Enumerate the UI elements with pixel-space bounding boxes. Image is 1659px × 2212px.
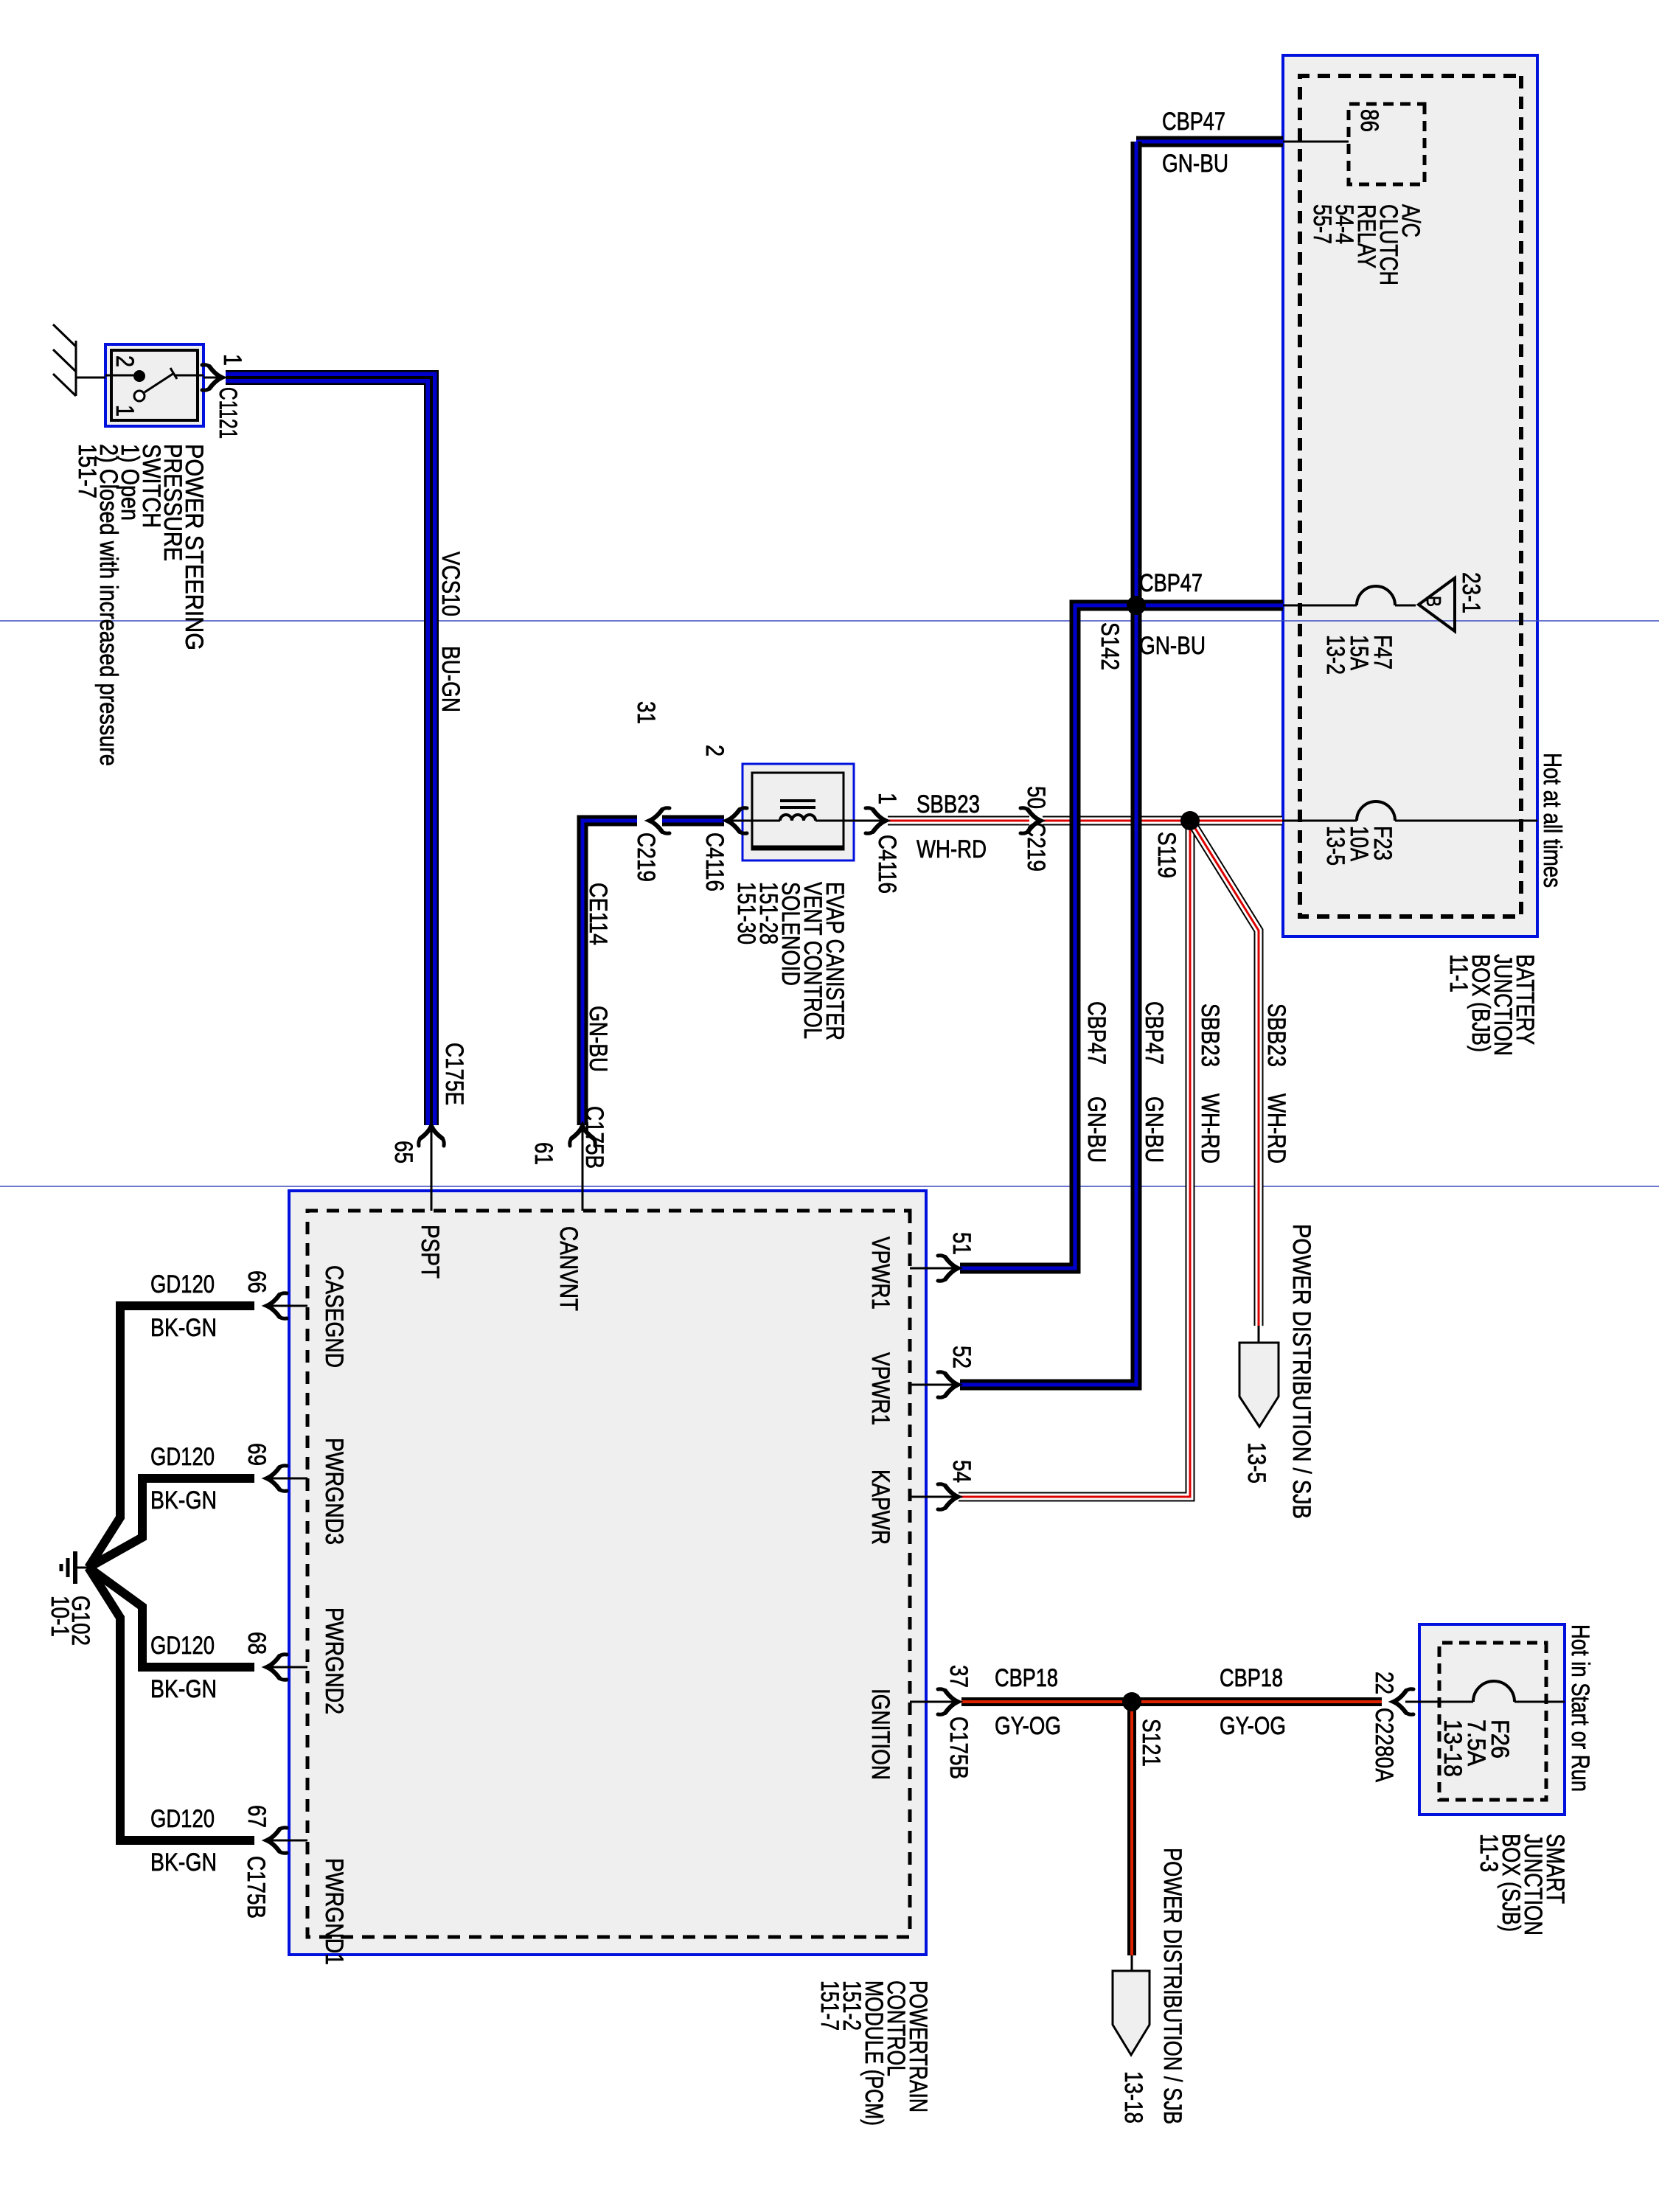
svg-text:B: B [1422, 596, 1445, 607]
svg-text:11-3: 11-3 [1475, 1834, 1503, 1872]
svg-text:2: 2 [700, 745, 728, 757]
svg-text:54: 54 [947, 1460, 975, 1483]
svg-text:52: 52 [947, 1346, 975, 1368]
svg-text:11-1: 11-1 [1444, 954, 1472, 992]
svg-text:51: 51 [947, 1232, 975, 1255]
svg-text:CBP47: CBP47 [1082, 1001, 1110, 1065]
svg-text:86: 86 [1355, 109, 1383, 132]
svg-text:C175B: C175B [945, 1717, 973, 1779]
svg-text:GN-BU: GN-BU [1162, 150, 1228, 178]
svg-text:PWRGND1: PWRGND1 [320, 1858, 348, 1965]
svg-text:POWER DISTRIBUTION / SJB: POWER DISTRIBUTION / SJB [1158, 1848, 1186, 2124]
svg-text:GN-BU: GN-BU [1139, 632, 1206, 660]
svg-text:SBB23: SBB23 [1196, 1004, 1224, 1067]
svg-text:C4116: C4116 [873, 835, 901, 894]
svg-text:SBB23: SBB23 [1262, 1004, 1290, 1067]
svg-text:CBP47: CBP47 [1162, 108, 1225, 136]
svg-text:GD120: GD120 [150, 1270, 215, 1298]
svg-text:2: 2 [111, 355, 139, 367]
svg-text:S142: S142 [1096, 622, 1124, 670]
svg-text:IGNITION: IGNITION [866, 1688, 894, 1780]
svg-text:13-18: 13-18 [1119, 2071, 1147, 2124]
svg-text:KAPWR: KAPWR [866, 1470, 894, 1545]
svg-text:C1121: C1121 [214, 387, 242, 439]
svg-text:GY-OG: GY-OG [995, 1712, 1061, 1740]
svg-text:PSPT: PSPT [416, 1225, 444, 1279]
svg-text:1: 1 [218, 354, 246, 366]
svg-text:S121: S121 [1137, 1719, 1165, 1767]
svg-text:GD120: GD120 [150, 1805, 215, 1833]
svg-text:31: 31 [632, 701, 660, 724]
svg-text:VPWR1: VPWR1 [866, 1352, 894, 1425]
svg-text:S119: S119 [1152, 832, 1180, 878]
svg-text:WH-RD: WH-RD [1262, 1093, 1290, 1164]
svg-text:BK-GN: BK-GN [150, 1848, 217, 1877]
svg-text:CANVNT: CANVNT [554, 1226, 582, 1311]
svg-text:PWRGND3: PWRGND3 [320, 1438, 348, 1545]
svg-text:1: 1 [873, 793, 901, 804]
svg-text:61: 61 [529, 1142, 557, 1165]
svg-text:GN-BU: GN-BU [1140, 1096, 1168, 1163]
svg-text:WH-RD: WH-RD [917, 835, 987, 863]
svg-text:10-1: 10-1 [46, 1596, 74, 1637]
svg-text:CE114: CE114 [584, 883, 612, 945]
svg-text:VPWR1: VPWR1 [866, 1237, 894, 1310]
svg-text:C175B: C175B [580, 1106, 608, 1169]
svg-text:151-7: 151-7 [73, 444, 101, 498]
svg-text:151-7: 151-7 [815, 1980, 844, 2031]
svg-text:55-7: 55-7 [1308, 204, 1336, 244]
svg-text:BK-GN: BK-GN [150, 1675, 217, 1703]
svg-text:GY-OG: GY-OG [1220, 1712, 1286, 1740]
svg-text:C219: C219 [1022, 822, 1050, 872]
svg-text:GN-BU: GN-BU [584, 1006, 612, 1072]
svg-text:Hot in Start or Run: Hot in Start or Run [1566, 1624, 1594, 1792]
svg-text:C2280A: C2280A [1370, 1708, 1398, 1782]
svg-text:VCS10: VCS10 [437, 552, 465, 616]
svg-text:50: 50 [1022, 786, 1050, 809]
svg-text:CBP18: CBP18 [995, 1664, 1058, 1692]
svg-text:GD120: GD120 [150, 1443, 215, 1471]
svg-text:Hot at all times: Hot at all times [1538, 753, 1566, 888]
svg-text:37: 37 [945, 1665, 973, 1688]
svg-text:SBB23: SBB23 [917, 790, 980, 818]
svg-text:BU-GN: BU-GN [437, 646, 465, 712]
svg-text:69: 69 [243, 1443, 271, 1466]
svg-text:PWRGND2: PWRGND2 [320, 1607, 348, 1714]
svg-text:C4116: C4116 [700, 832, 728, 891]
svg-text:BK-GN: BK-GN [150, 1314, 217, 1342]
svg-text:POWER DISTRIBUTION / SJB: POWER DISTRIBUTION / SJB [1287, 1224, 1315, 1519]
svg-text:GN-BU: GN-BU [1082, 1096, 1110, 1163]
svg-text:CASEGND: CASEGND [320, 1265, 348, 1368]
svg-text:CBP18: CBP18 [1220, 1664, 1283, 1692]
svg-text:151-30: 151-30 [732, 882, 760, 945]
svg-text:13-5: 13-5 [1242, 1442, 1270, 1484]
svg-text:CBP47: CBP47 [1139, 569, 1203, 597]
svg-text:13-2: 13-2 [1321, 635, 1349, 675]
svg-text:C175E: C175E [440, 1043, 468, 1105]
svg-text:23-1: 23-1 [1457, 572, 1485, 613]
svg-text:C175B: C175B [242, 1856, 270, 1919]
svg-text:67: 67 [243, 1805, 271, 1828]
svg-text:68: 68 [243, 1632, 271, 1655]
svg-text:WH-RD: WH-RD [1196, 1093, 1224, 1164]
svg-text:13-5: 13-5 [1321, 826, 1349, 866]
svg-text:C219: C219 [632, 832, 660, 882]
svg-text:1: 1 [111, 405, 139, 417]
svg-text:65: 65 [389, 1141, 417, 1164]
svg-text:CBP47: CBP47 [1140, 1001, 1168, 1065]
svg-text:13-18: 13-18 [1439, 1719, 1467, 1777]
svg-text:66: 66 [243, 1270, 271, 1293]
svg-text:BK-GN: BK-GN [150, 1486, 217, 1514]
svg-text:22: 22 [1370, 1672, 1398, 1694]
svg-text:GD120: GD120 [150, 1632, 215, 1660]
